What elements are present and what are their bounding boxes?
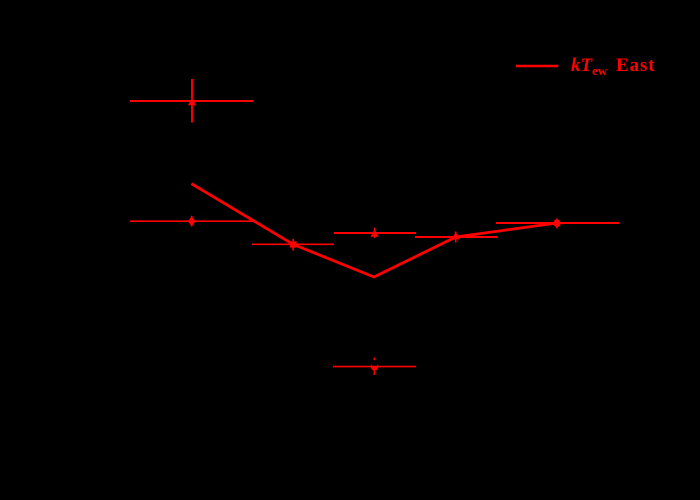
point P1 vertical error bar — [191, 79, 193, 123]
point P6 vertical error bar — [556, 219, 558, 229]
data series line kT_ew East — [191, 184, 557, 277]
point P7 vertical error bar upper tick — [373, 358, 375, 361]
point P3 marker (filled square) — [290, 241, 297, 247]
point P5 horizontal error bar — [415, 236, 497, 238]
point P6 marker (filled circle) — [553, 219, 561, 227]
point P4 marker (filled triangle up) — [370, 229, 378, 236]
point P1 horizontal error bar — [130, 100, 253, 102]
point P7 vertical error bar lower part — [373, 371, 375, 376]
point P1 marker (filled triangle up) — [188, 99, 196, 106]
point P7 horizontal error bar — [333, 366, 416, 368]
point P7 marker (inverted star shape) — [371, 364, 378, 370]
point P4 horizontal error bar — [334, 232, 416, 234]
point P5 marker (filled triangle up) — [452, 232, 460, 240]
point P4 vertical error bar — [374, 228, 376, 238]
legend sample line — [516, 65, 559, 68]
point P2 vertical error bar — [191, 216, 193, 227]
point P2 marker (filled diamond) — [188, 216, 196, 226]
point P3 horizontal error bar — [252, 243, 334, 245]
point P3 vertical error bar — [292, 239, 294, 251]
point P6 horizontal error bar — [496, 222, 619, 224]
point P2 horizontal error bar — [130, 220, 253, 222]
point P5 vertical error bar — [455, 232, 457, 243]
